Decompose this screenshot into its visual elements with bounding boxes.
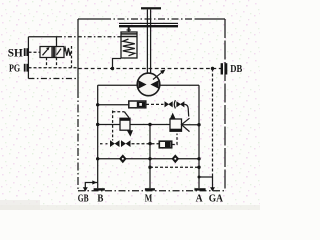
- svg-text:GB: GB: [78, 193, 89, 204]
- port SH: [24, 48, 28, 56]
- relief valve RV1 body: [120, 118, 130, 130]
- junction A at drain row: [197, 166, 200, 169]
- valve V1 brake shuttle valve body: [40, 47, 64, 58]
- brake piston: [121, 33, 136, 35]
- junction M at relief row: [148, 123, 151, 126]
- wire pilot vertical dashed: [212, 69, 214, 178]
- enclosure right border: [224, 19, 226, 191]
- port M: [145, 188, 155, 190]
- wire pilot row stub: [100, 143, 108, 145]
- relief valve RV2 body: [170, 119, 182, 131]
- GB drain arrow: [83, 187, 88, 191]
- wire relief row RV1 to RV2: [130, 124, 170, 126]
- pilot dashes RV1: [112, 111, 114, 141]
- wire drain row dashed: [150, 166, 199, 168]
- junction A at makeup row: [197, 157, 200, 160]
- port PG: [24, 64, 28, 72]
- wire motor port A side: [160, 84, 199, 86]
- wire brake cylinder drain: [113, 59, 122, 69]
- brake cylinder body: [121, 32, 137, 58]
- relief valve RV2 converging lines: [182, 118, 190, 131]
- pilot valve bracket (SH/PG subplate): [27, 37, 29, 79]
- check valve CV3: [120, 155, 126, 162]
- wire makeup row: [98, 158, 199, 160]
- wire B line vertical: [97, 85, 99, 188]
- check valve CV1: [165, 101, 173, 107]
- motor M1 right flow triangle: [150, 80, 158, 89]
- motor shaft double line: [146, 10, 148, 74]
- port A: [194, 188, 205, 190]
- wire A line vertical: [198, 85, 200, 188]
- shuttle valve SV1: [110, 140, 120, 147]
- pilot diagonal into RV1: [124, 112, 129, 118]
- wire pilot line to brake cylinder: [58, 36, 121, 38]
- wire valve drain right: [71, 46, 73, 68]
- enclosure bottom border: [78, 190, 225, 192]
- wire GA drain hook: [199, 177, 213, 188]
- brake piston rod: [128, 27, 130, 32]
- brake spring: [123, 39, 135, 56]
- relief valve RV1 arrow: [127, 130, 133, 136]
- svg-text:M: M: [145, 193, 153, 204]
- GB hook arrowhead: [92, 180, 97, 184]
- svg-text:DB: DB: [230, 63, 243, 75]
- junction brake tap: [111, 67, 114, 70]
- wire relief row RV2 to A line: [182, 124, 199, 126]
- svg-text:GA: GA: [209, 193, 224, 204]
- wire SH pilot line: [29, 51, 41, 53]
- motor M1 left flow triangle: [138, 80, 146, 89]
- wire valve V1 output up: [56, 37, 58, 47]
- wire bypass to relief RV2 pilot: [184, 104, 188, 116]
- wire pilot to RV2 bottom: [172, 134, 177, 145]
- wire bypass row dashed: [146, 103, 164, 105]
- motor M1 circle: [137, 73, 160, 96]
- wire pilot row dashed to M: [132, 143, 160, 145]
- enclosure left border: [77, 19, 79, 90]
- wire DB pilot line: [78, 68, 224, 70]
- junction B at relief row: [96, 123, 99, 126]
- svg-text:SH: SH: [8, 47, 23, 59]
- spring of valve V1: [64, 48, 71, 56]
- valve V1 left position flow arrow: [43, 49, 49, 56]
- junction M at drain row: [148, 166, 151, 169]
- svg-text:B: B: [97, 193, 103, 204]
- check valve CV2: [174, 100, 175, 108]
- junction pilot branch: [211, 67, 214, 70]
- check valve CV4: [172, 155, 178, 162]
- valve V1 right position path: [53, 47, 55, 57]
- junction M at makeup row: [148, 157, 151, 160]
- svg-text:PG: PG: [9, 63, 21, 75]
- svg-text:A: A: [196, 193, 203, 204]
- port DB: [221, 63, 228, 74]
- orifice block OR1: [159, 141, 171, 148]
- junction B at makeup row: [96, 157, 99, 160]
- motor two-speed control arrow: [153, 72, 163, 80]
- port B: [94, 188, 105, 190]
- junction M at pilot row: [148, 142, 151, 145]
- junction B at bypass row: [96, 103, 99, 106]
- wire PG pilot line: [29, 67, 79, 69]
- relief valve RV2 arrow: [170, 113, 176, 120]
- wire relief row B to RV1: [98, 124, 120, 126]
- enclosure top border: [78, 18, 104, 20]
- shuttle valve SV2: [121, 140, 131, 147]
- GA drain arrow: [210, 187, 215, 191]
- junction A at relief row: [197, 123, 200, 126]
- brake disc bar: [119, 23, 178, 24]
- wire M line vertical: [149, 125, 151, 189]
- wire bypass row solid: [98, 104, 129, 106]
- junction A at GA hook: [198, 176, 201, 179]
- wire GB drain hook: [85, 183, 97, 188]
- wire motor port B side: [98, 84, 138, 86]
- wire valve V1 legs down: [46, 58, 48, 68]
- shaft top tee: [141, 7, 161, 9]
- valve V2 anti-reaction block: [129, 101, 146, 108]
